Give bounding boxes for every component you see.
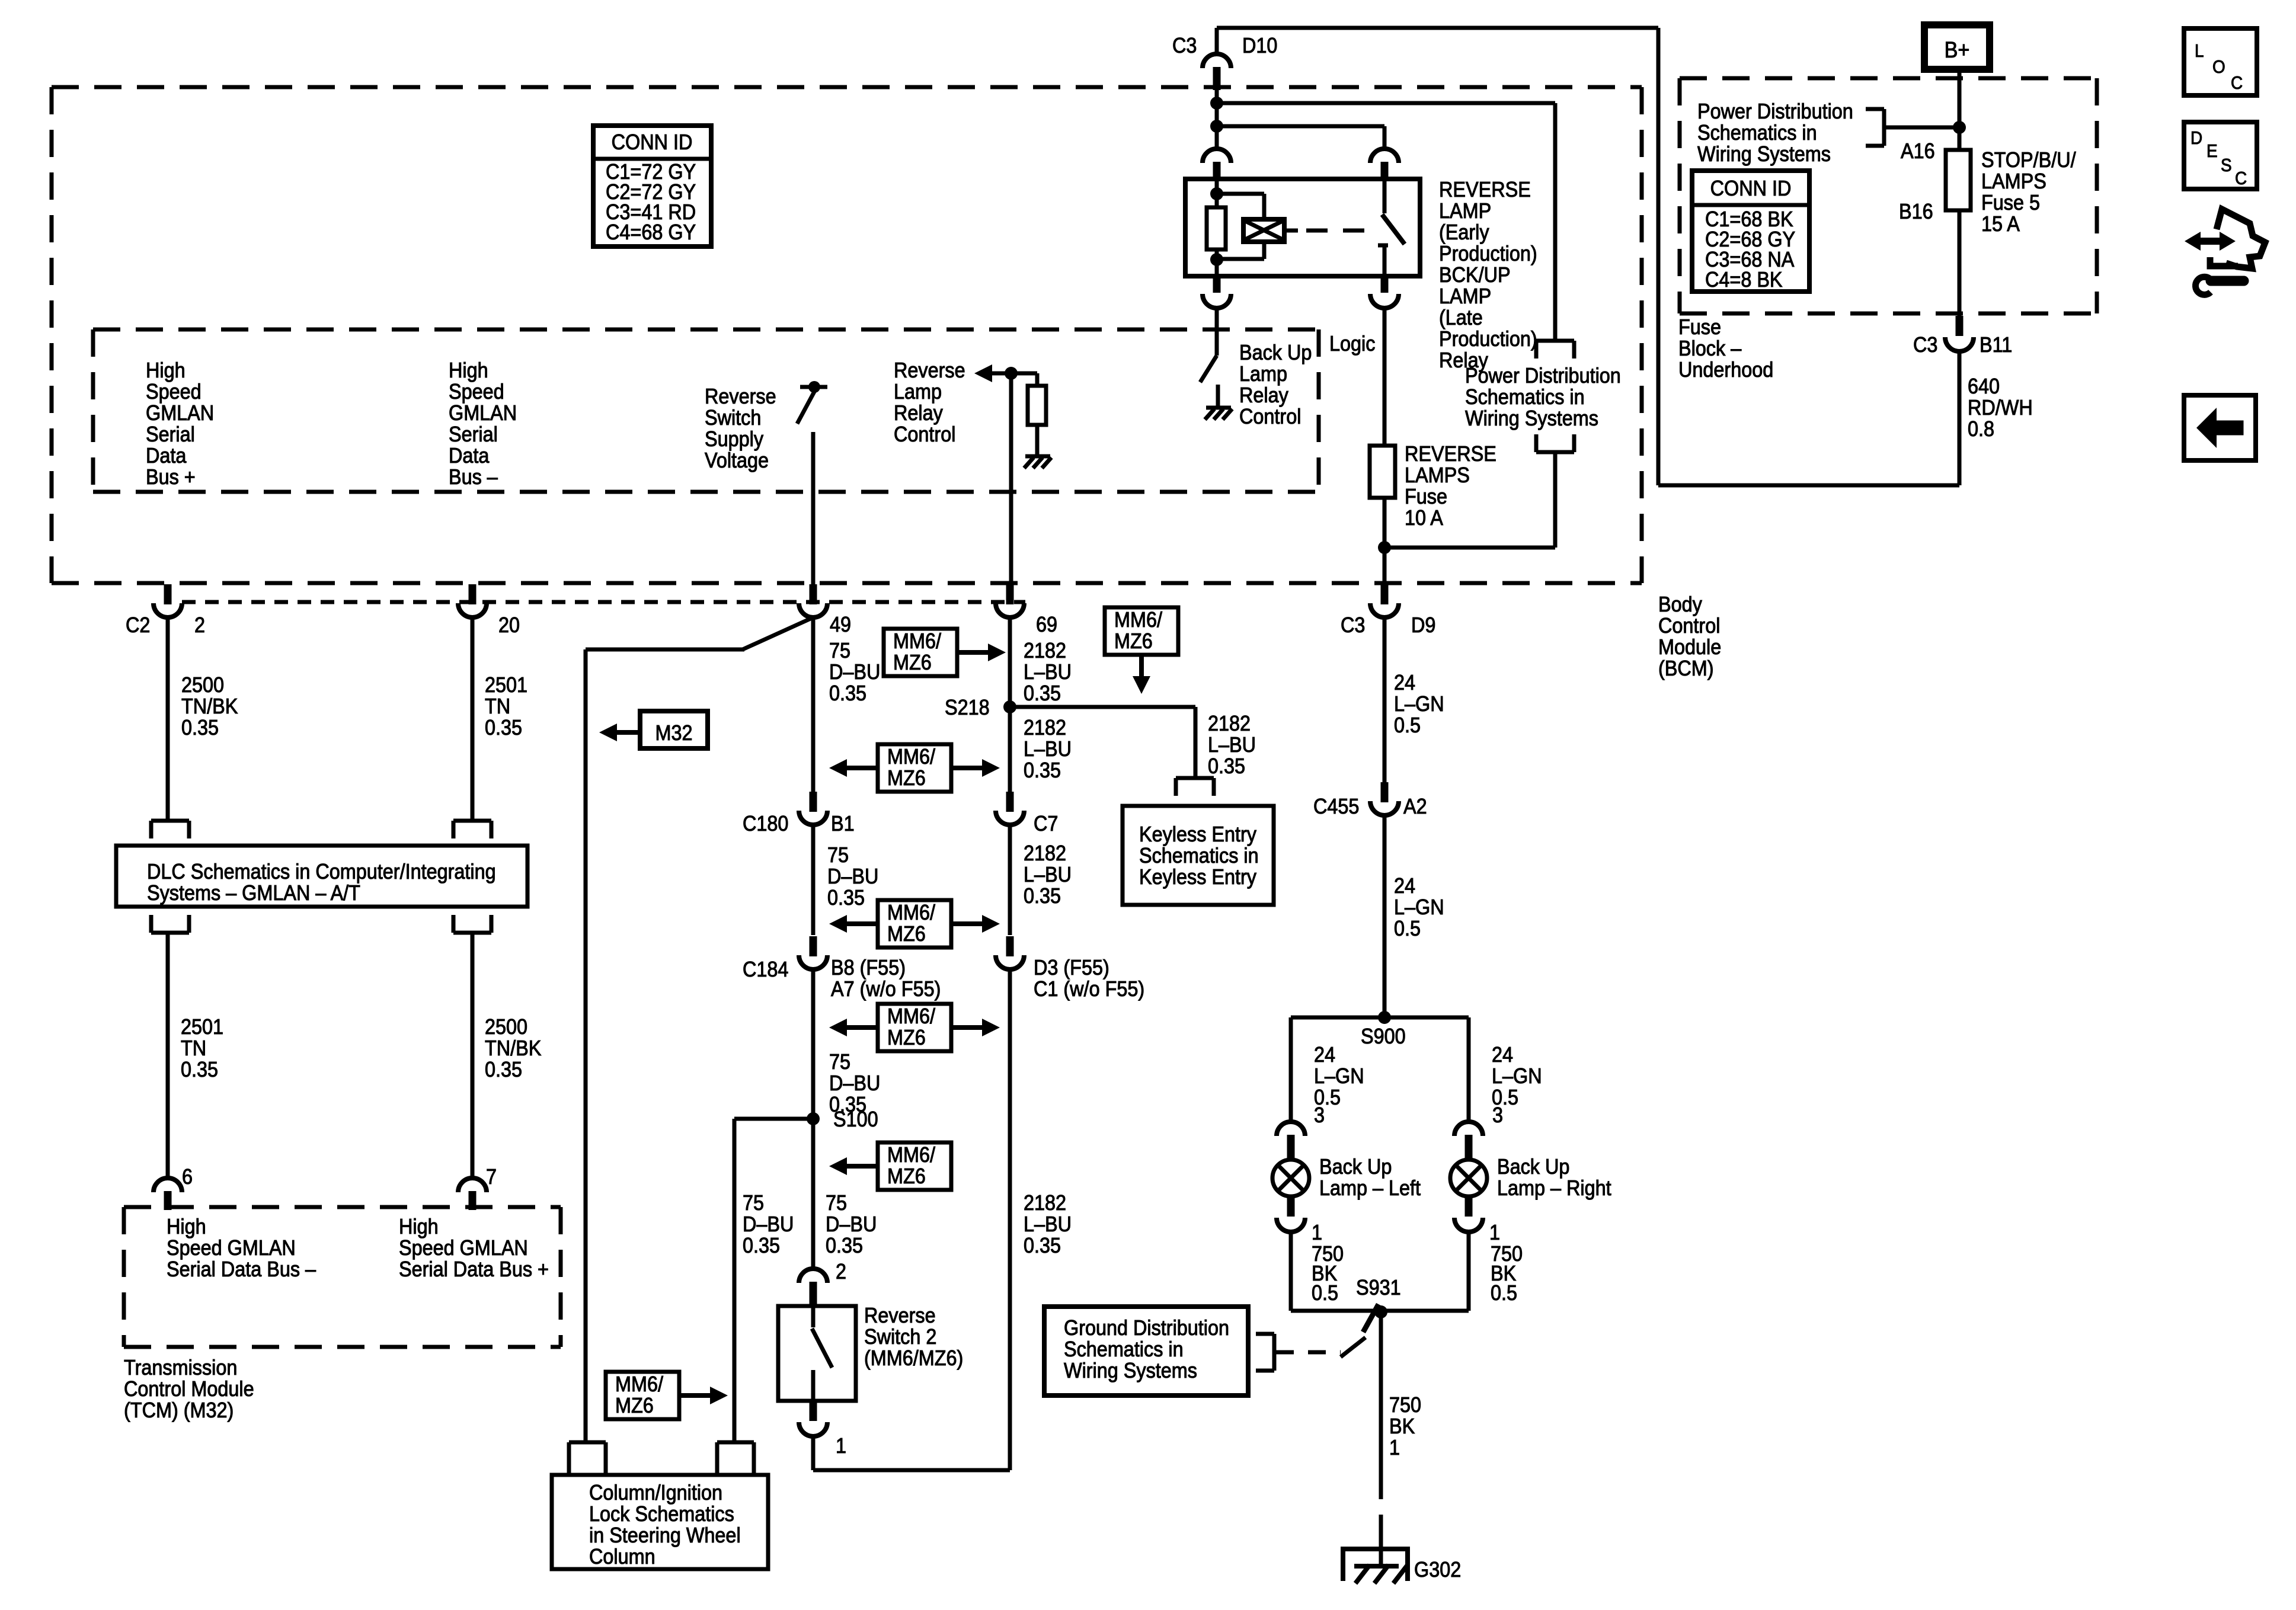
svg-text:MZ6: MZ6 <box>887 922 926 946</box>
resistor pull-up in BCM <box>1035 373 1040 386</box>
svg-text:D–BU: D–BU <box>743 1212 794 1236</box>
svg-text:Speed: Speed <box>146 380 202 404</box>
svg-text:D9: D9 <box>1411 613 1435 637</box>
svg-text:Serial: Serial <box>146 422 195 446</box>
svg-text:C3: C3 <box>1341 613 1365 637</box>
splice S900 <box>1378 1011 1391 1024</box>
fuse STOP/B/U LAMPS 5 15A <box>1946 150 1971 210</box>
svg-text:69: 69 <box>1036 613 1057 636</box>
wire relay switch output to fuse <box>1383 307 1387 446</box>
svg-text:E: E <box>2207 141 2218 162</box>
svg-text:Speed GMLAN: Speed GMLAN <box>399 1236 528 1260</box>
svg-text:750: 750 <box>1389 1393 1421 1417</box>
svg-text:0.8: 0.8 <box>1968 417 1994 441</box>
svg-text:2182: 2182 <box>1024 716 1066 740</box>
node fuse/power-distribution junction <box>1378 541 1391 554</box>
svg-text:2: 2 <box>194 613 205 637</box>
svg-text:Wiring Systems: Wiring Systems <box>1697 142 1831 166</box>
connector C3 pin D9 <box>1381 584 1389 604</box>
svg-text:Module: Module <box>1658 635 1721 659</box>
bracket keyless entry <box>1176 776 1214 780</box>
svg-text:S931: S931 <box>1356 1276 1401 1299</box>
svg-text:L: L <box>2195 41 2204 62</box>
connector C3 B11 <box>1956 316 1964 336</box>
double arrow and wrench icon <box>2193 238 2227 245</box>
relay REVERSE LAMP box <box>1185 179 1420 276</box>
svg-text:O: O <box>2212 57 2225 78</box>
svg-text:S: S <box>2221 155 2232 176</box>
connector pin 49 <box>810 584 817 604</box>
svg-text:1: 1 <box>1312 1221 1322 1244</box>
svg-text:A16: A16 <box>1901 139 1935 163</box>
svg-text:MZ6: MZ6 <box>887 1026 926 1049</box>
svg-text:Systems – GMLAN – A/T: Systems – GMLAN – A/T <box>147 881 360 905</box>
node relay feed 2 <box>1210 120 1223 133</box>
wire reverse switch supply voltage down <box>811 432 816 584</box>
ground relay control switch <box>1206 406 1231 410</box>
svg-text:CONN ID: CONN ID <box>1710 177 1792 200</box>
svg-text:C455: C455 <box>1313 795 1359 818</box>
svg-text:Lamp – Right: Lamp – Right <box>1497 1176 1611 1200</box>
CONN ID table for BCM connectors <box>593 126 711 247</box>
svg-text:MM6/: MM6/ <box>893 629 941 653</box>
svg-text:0.35: 0.35 <box>826 1234 863 1257</box>
wire 2501 TN from 20 <box>471 617 475 820</box>
svg-text:0.5: 0.5 <box>1312 1281 1338 1305</box>
wire 640 RD/WH return to BCM <box>1958 351 1962 485</box>
svg-text:GMLAN: GMLAN <box>449 401 517 425</box>
connector pin 20 <box>469 584 477 604</box>
reverse switch supply voltage internal switch symbol <box>800 385 827 389</box>
wire fuse to connector B11 <box>1958 210 1962 317</box>
svg-text:Data: Data <box>146 444 187 468</box>
svg-text:MZ6: MZ6 <box>1114 629 1153 653</box>
bracket column box left <box>569 1441 606 1445</box>
svg-text:DLC Schematics in Computer/Int: DLC Schematics in Computer/Integrating <box>147 860 496 884</box>
relay crossed box symbol <box>1243 219 1284 242</box>
DESC legend box <box>2184 122 2257 189</box>
svg-text:TN: TN <box>181 1036 206 1060</box>
wire 75 D-BU main down to C180 <box>811 617 816 796</box>
wire S218 to keyless entry <box>1010 705 1195 709</box>
svg-text:B8 (F55): B8 (F55) <box>831 956 906 980</box>
wire to S100 <box>811 969 816 1270</box>
svg-text:0.35: 0.35 <box>1024 681 1061 705</box>
svg-text:49: 49 <box>830 613 851 636</box>
svg-text:0.5: 0.5 <box>1394 917 1421 940</box>
connector TCM pin 6 <box>154 1178 182 1192</box>
svg-text:2501: 2501 <box>485 673 527 697</box>
svg-text:3: 3 <box>1314 1103 1325 1127</box>
relay actuator stub <box>1284 229 1298 233</box>
svg-text:3: 3 <box>1492 1103 1503 1127</box>
svg-text:Power Distribution: Power Distribution <box>1697 100 1853 123</box>
svg-text:Lamp: Lamp <box>1239 362 1287 386</box>
svg-text:B11: B11 <box>1980 333 2012 357</box>
wire left lamp ground <box>1289 1232 1293 1311</box>
svg-text:MM6/: MM6/ <box>1114 608 1162 632</box>
bracket column box right <box>717 1441 754 1445</box>
svg-text:High: High <box>399 1215 439 1238</box>
wire 2501 TN to TCM 6 <box>166 933 170 1179</box>
svg-text:Logic: Logic <box>1329 332 1375 356</box>
connector row dotted line <box>182 600 1025 604</box>
svg-text:(BCM): (BCM) <box>1658 657 1714 680</box>
wire D9 to C455 <box>1383 617 1387 782</box>
svg-text:L–BU: L–BU <box>1024 863 1072 886</box>
svg-text:6: 6 <box>182 1165 193 1189</box>
fuse block dashed box <box>1680 76 2097 81</box>
svg-text:2500: 2500 <box>181 673 224 697</box>
svg-text:B16: B16 <box>1899 200 1933 223</box>
svg-text:C4=8 BK: C4=8 BK <box>1705 268 1783 292</box>
svg-text:BCK/UP: BCK/UP <box>1439 263 1511 287</box>
wire 75 D-BU left branch down <box>584 649 588 1443</box>
splice S931 <box>1374 1305 1387 1318</box>
svg-text:Control Module: Control Module <box>124 1377 254 1401</box>
svg-text:Power Distribution: Power Distribution <box>1465 364 1621 388</box>
svg-text:Speed GMLAN: Speed GMLAN <box>167 1236 296 1260</box>
connector pin 69 <box>1006 584 1014 604</box>
relay switch contact <box>1383 179 1387 213</box>
svg-text:Reverse: Reverse <box>864 1304 936 1327</box>
Ground Distribution Schematics box <box>1044 1307 1248 1395</box>
wire bracket to B+ node <box>1884 126 1959 130</box>
node B+ tap <box>1953 121 1966 134</box>
svg-text:640: 640 <box>1968 375 2000 398</box>
svg-text:A7 (w/o F55): A7 (w/o F55) <box>831 977 941 1001</box>
wire B1 to C184 <box>811 825 816 935</box>
svg-text:GMLAN: GMLAN <box>146 401 214 425</box>
Keyless Entry Schematics box <box>1123 806 1274 905</box>
svg-text:C7: C7 <box>1034 812 1058 836</box>
svg-text:Serial Data Bus +: Serial Data Bus + <box>399 1257 549 1281</box>
wire S100 branch to column <box>734 1117 813 1121</box>
svg-text:24: 24 <box>1492 1043 1513 1067</box>
wire top feed from fuse block <box>1217 26 1658 30</box>
connector C184 B8/A7 <box>810 936 817 956</box>
connector C455 A2 <box>1381 782 1389 802</box>
svg-text:1: 1 <box>836 1434 846 1458</box>
svg-text:Bus –: Bus – <box>449 465 498 489</box>
svg-text:24: 24 <box>1314 1043 1335 1067</box>
wire to relay switch contact <box>1217 124 1384 129</box>
wire S900 lamp feed bus <box>1291 1016 1469 1020</box>
svg-text:Voltage: Voltage <box>705 449 769 472</box>
svg-text:0.35: 0.35 <box>1024 758 1061 782</box>
svg-text:Bus +: Bus + <box>146 465 196 489</box>
svg-text:A2: A2 <box>1403 795 1427 818</box>
bracket DLC top right <box>453 819 491 823</box>
svg-text:2500: 2500 <box>485 1015 527 1039</box>
svg-text:MM6/: MM6/ <box>887 1004 935 1028</box>
svg-text:MZ6: MZ6 <box>893 651 932 674</box>
svg-text:High: High <box>167 1215 206 1238</box>
svg-text:MM6/: MM6/ <box>887 1143 935 1167</box>
svg-text:L–BU: L–BU <box>1208 733 1256 757</box>
svg-text:75: 75 <box>743 1191 764 1215</box>
svg-text:LAMP: LAMP <box>1439 284 1491 308</box>
connector C2 pin 2 <box>164 584 172 604</box>
relay actuator dashed link <box>1306 229 1374 233</box>
splice S100 <box>807 1112 820 1125</box>
svg-text:Production): Production) <box>1439 242 1537 265</box>
wire dashed to G302 <box>1379 1468 1383 1541</box>
svg-text:Schematics in: Schematics in <box>1139 844 1259 868</box>
svg-text:Control: Control <box>894 422 955 446</box>
svg-text:Transmission: Transmission <box>124 1356 237 1379</box>
reverse lamp relay control arrow <box>974 364 992 382</box>
svg-text:24: 24 <box>1394 671 1415 694</box>
connector relay coil output pin <box>1213 275 1221 293</box>
svg-text:75: 75 <box>829 639 850 662</box>
svg-text:MZ6: MZ6 <box>887 1164 926 1188</box>
svg-text:(TCM) (M32): (TCM) (M32) <box>124 1398 234 1422</box>
svg-text:Relay: Relay <box>894 401 944 425</box>
svg-text:Reverse: Reverse <box>894 359 965 382</box>
svg-text:2182: 2182 <box>1024 639 1066 662</box>
wire B+ down to fuse <box>1958 69 1962 150</box>
connector left lamp pin 1 <box>1287 1195 1295 1217</box>
off-page bracket power distribution lower <box>1536 450 1574 454</box>
svg-text:2182: 2182 <box>1024 841 1066 865</box>
svg-text:Ground Distribution: Ground Distribution <box>1064 1316 1229 1340</box>
bracket DLC top left <box>151 819 189 823</box>
connector C180 B1 <box>810 792 817 812</box>
M32 reference box with arrow <box>640 711 708 748</box>
svg-text:High: High <box>449 359 488 382</box>
svg-text:(MM6/MZ6): (MM6/MZ6) <box>864 1346 963 1370</box>
svg-text:S218: S218 <box>945 696 990 719</box>
MM6/MZ6 option box <box>1105 607 1178 655</box>
svg-text:0.35: 0.35 <box>743 1234 780 1257</box>
svg-text:Fuse: Fuse <box>1405 485 1447 508</box>
svg-text:Serial Data Bus –: Serial Data Bus – <box>167 1257 316 1281</box>
connector right lamp pin 1 <box>1465 1195 1473 1217</box>
svg-text:STOP/B/U/: STOP/B/U/ <box>1981 148 2076 172</box>
MM6/MZ6 option box <box>884 629 957 676</box>
connector relay switch pin <box>1370 149 1399 163</box>
svg-text:Wiring Systems: Wiring Systems <box>1465 406 1598 430</box>
svg-text:C2: C2 <box>126 613 150 637</box>
svg-text:0.5: 0.5 <box>1491 1281 1517 1305</box>
wire A2 to S900 <box>1383 815 1387 1017</box>
MM6/MZ6 option box <box>878 744 951 792</box>
svg-text:Schematics in: Schematics in <box>1697 121 1817 145</box>
back up lamp relay control switch symbol <box>1215 329 1219 356</box>
svg-text:High: High <box>146 359 186 382</box>
svg-text:0.35: 0.35 <box>827 886 865 910</box>
DLC Schematics reference box <box>116 846 527 907</box>
svg-text:in Steering Wheel: in Steering Wheel <box>589 1523 741 1547</box>
svg-text:2182: 2182 <box>1208 712 1251 735</box>
svg-text:0.35: 0.35 <box>829 681 866 705</box>
svg-text:C1 (w/o F55): C1 (w/o F55) <box>1034 977 1144 1001</box>
svg-text:Keyless Entry: Keyless Entry <box>1139 865 1257 889</box>
svg-text:Back Up: Back Up <box>1239 341 1312 364</box>
MM6/MZ6 option box <box>878 900 951 948</box>
ground G302 symbol <box>1343 1549 1408 1581</box>
wire relay control drop <box>1009 373 1013 584</box>
wire relay coil output to control switch <box>1215 307 1219 331</box>
svg-text:RD/WH: RD/WH <box>1968 396 2033 420</box>
svg-text:Lamp: Lamp <box>894 380 942 404</box>
wire C7 to C184 <box>1008 825 1012 935</box>
svg-text:D–BU: D–BU <box>826 1212 877 1236</box>
svg-text:Speed: Speed <box>449 380 504 404</box>
svg-text:Relay: Relay <box>1239 383 1289 407</box>
svg-text:D–BU: D–BU <box>827 865 878 888</box>
svg-text:1: 1 <box>1389 1436 1400 1459</box>
svg-text:C3: C3 <box>1172 34 1197 57</box>
node relay feed 1 <box>1210 97 1223 110</box>
svg-text:D–BU: D–BU <box>829 660 880 684</box>
svg-text:0.35: 0.35 <box>181 716 219 740</box>
svg-text:Switch 2: Switch 2 <box>864 1325 936 1349</box>
svg-text:C184: C184 <box>743 958 788 981</box>
svg-text:7: 7 <box>486 1165 497 1189</box>
svg-text:Control: Control <box>1658 614 1720 638</box>
svg-text:Data: Data <box>449 444 490 468</box>
wire fuse to BCM bottom <box>1383 498 1387 584</box>
svg-text:Fuse 5: Fuse 5 <box>1981 191 2040 215</box>
svg-text:TN: TN <box>485 694 510 718</box>
connector TCM pin 7 <box>458 1178 487 1192</box>
wire 69 down to S218 <box>1008 617 1012 796</box>
svg-text:0.35: 0.35 <box>485 716 522 740</box>
svg-text:Block –: Block – <box>1678 337 1742 360</box>
svg-text:Lamp – Left: Lamp – Left <box>1319 1176 1421 1200</box>
svg-text:MZ6: MZ6 <box>887 766 926 790</box>
svg-text:LAMPS: LAMPS <box>1405 463 1470 487</box>
TCM dashed module box <box>124 1205 561 1209</box>
svg-text:0.35: 0.35 <box>181 1058 218 1081</box>
bracket DLC bottom left <box>151 931 189 935</box>
svg-text:TN/BK: TN/BK <box>485 1036 542 1060</box>
bracket ground distribution <box>1272 1334 1277 1371</box>
svg-text:D3 (F55): D3 (F55) <box>1034 956 1109 980</box>
BCM module dashed boundary box <box>52 85 1642 89</box>
relay armature parallel branch <box>1217 192 1264 196</box>
svg-text:10 A: 10 A <box>1405 506 1443 530</box>
LOC legend box <box>2184 28 2257 95</box>
svg-text:Underhood: Underhood <box>1678 358 1773 382</box>
svg-text:2: 2 <box>836 1260 846 1283</box>
svg-text:Wiring Systems: Wiring Systems <box>1064 1359 1197 1382</box>
MM6/MZ6 option box <box>878 1142 951 1190</box>
ground internal BCM <box>1025 454 1050 459</box>
svg-text:MM6/: MM6/ <box>887 901 935 924</box>
wire right lamp ground <box>1467 1232 1471 1311</box>
connector relay coil pin <box>1203 149 1231 163</box>
lamp Back Up Lamp - Right <box>1450 1160 1487 1196</box>
svg-text:0.35: 0.35 <box>1024 1234 1061 1257</box>
svg-text:L–BU: L–BU <box>1024 660 1072 684</box>
svg-text:M32: M32 <box>655 721 692 745</box>
svg-text:0.35: 0.35 <box>485 1058 522 1081</box>
svg-text:Supply: Supply <box>705 427 764 451</box>
CONN ID table fuse block <box>1692 171 1809 292</box>
wire 2500 TN/BK from C2-2 <box>166 617 170 820</box>
splice S218 <box>1003 700 1016 713</box>
BCM inner dashed function box <box>93 328 1319 332</box>
svg-text:L–GN: L–GN <box>1394 895 1444 919</box>
svg-text:BK: BK <box>1389 1414 1415 1438</box>
svg-text:75: 75 <box>827 843 849 867</box>
off-page bracket power distribution upper <box>1536 339 1574 343</box>
svg-text:C: C <box>2231 73 2243 94</box>
svg-text:D10: D10 <box>1242 34 1277 57</box>
svg-text:L–GN: L–GN <box>1394 692 1444 716</box>
wire 75 D-BU branch diagonal <box>743 617 813 649</box>
wire to power distribution tap <box>1217 101 1555 105</box>
connector relay switch output pin <box>1381 275 1389 293</box>
back navigation arrow box <box>2184 395 2256 460</box>
Reverse Switch 2 box <box>778 1306 856 1401</box>
svg-text:2182: 2182 <box>1024 1191 1066 1215</box>
svg-text:Production): Production) <box>1439 327 1537 351</box>
MM6/MZ6 option box <box>878 1004 951 1051</box>
svg-text:L–GN: L–GN <box>1314 1064 1364 1088</box>
wire D3 down to reverse switch 2 <box>1008 969 1012 1470</box>
MM6/MZ6 option box <box>606 1372 679 1419</box>
svg-text:(Early: (Early <box>1439 220 1489 244</box>
svg-text:G302: G302 <box>1414 1558 1461 1582</box>
svg-text:15 A: 15 A <box>1981 212 2020 236</box>
svg-text:REVERSE: REVERSE <box>1439 178 1531 201</box>
wire left lamp feed <box>1289 1017 1293 1123</box>
svg-text:B1: B1 <box>831 812 855 836</box>
svg-text:MZ6: MZ6 <box>615 1394 654 1417</box>
svg-text:Column/Ignition: Column/Ignition <box>589 1481 722 1505</box>
svg-text:Serial: Serial <box>449 422 498 446</box>
connector C180 C7 <box>1006 792 1014 812</box>
svg-text:TN/BK: TN/BK <box>181 694 238 718</box>
svg-text:LAMPS: LAMPS <box>1981 169 2046 193</box>
svg-text:MM6/: MM6/ <box>887 745 935 769</box>
svg-text:D–BU: D–BU <box>829 1071 880 1095</box>
wire switch output to 2182 wire <box>811 1435 816 1470</box>
bracket DLC bottom right <box>453 931 491 935</box>
svg-text:MM6/: MM6/ <box>615 1372 663 1396</box>
svg-text:Fuse: Fuse <box>1678 315 1721 339</box>
svg-text:(Late: (Late <box>1439 306 1483 329</box>
svg-text:0.5: 0.5 <box>1394 713 1421 737</box>
wire S931 to ground <box>1379 1312 1383 1468</box>
svg-text:REVERSE: REVERSE <box>1405 442 1496 466</box>
svg-text:Control: Control <box>1239 405 1301 428</box>
svg-text:24: 24 <box>1394 874 1415 898</box>
node relay control junction <box>1005 367 1018 380</box>
svg-text:Back Up: Back Up <box>1319 1155 1392 1179</box>
svg-text:LAMP: LAMP <box>1439 199 1491 223</box>
svg-text:Body: Body <box>1658 593 1703 616</box>
svg-text:C4=68 GY: C4=68 GY <box>606 220 696 244</box>
wire into relay coil branch <box>1215 90 1219 149</box>
svg-text:Schematics in: Schematics in <box>1064 1337 1184 1361</box>
svg-text:C180: C180 <box>743 812 788 836</box>
B+ battery feed symbol <box>1924 25 1990 69</box>
fuse REVERSE LAMPS 10A <box>1370 446 1395 498</box>
svg-text:S900: S900 <box>1361 1025 1406 1048</box>
svg-text:Lock Schematics: Lock Schematics <box>589 1502 734 1526</box>
relay coil <box>1215 179 1219 207</box>
svg-text:20: 20 <box>498 613 520 637</box>
svg-text:Keyless Entry: Keyless Entry <box>1139 822 1257 846</box>
bracket power distribution fuse block <box>1882 109 1886 146</box>
svg-text:S100: S100 <box>833 1108 878 1131</box>
connector reverse switch pin 1 <box>810 1400 817 1421</box>
